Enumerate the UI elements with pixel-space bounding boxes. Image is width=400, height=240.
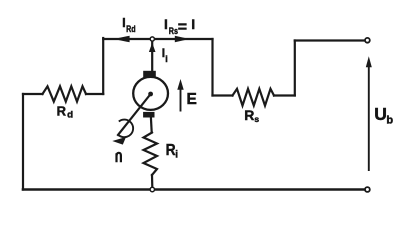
svg-text:R: R bbox=[244, 107, 254, 123]
wire Ri to bottom node bbox=[151, 175, 154, 187]
wire Rs row leads bbox=[213, 94, 295, 96]
svg-text:E: E bbox=[187, 91, 197, 108]
node top (junction on top wire) bbox=[150, 37, 154, 41]
motor M armature circle bbox=[133, 77, 168, 110]
wire to top terminal bbox=[295, 39, 364, 41]
resistor Ri bbox=[144, 133, 158, 176]
wire bottom brush to Ri bbox=[150, 117, 153, 132]
svg-text:Rd: Rd bbox=[126, 24, 136, 34]
svg-text:R: R bbox=[57, 103, 67, 118]
wire top-right segment (node to corner) bbox=[155, 38, 213, 40]
svg-text:b: b bbox=[386, 114, 393, 126]
svg-text:s: s bbox=[254, 114, 259, 124]
motor top brush bbox=[143, 71, 156, 77]
svg-text:I: I bbox=[191, 16, 195, 32]
node bottom (junction on bottom rail) bbox=[150, 187, 154, 191]
wire Rd row leads bbox=[23, 93, 103, 95]
svg-text:i: i bbox=[175, 150, 178, 161]
resistor Rd bbox=[43, 86, 87, 101]
rotation arc n bbox=[119, 120, 133, 138]
wire top-left segment (node to left corner) bbox=[103, 38, 150, 40]
svg-text:=: = bbox=[178, 19, 187, 36]
motor shaft line bbox=[117, 94, 150, 136]
voltage arrow U_b bbox=[368, 66, 370, 171]
resistor Rs bbox=[233, 89, 275, 106]
rotation arrowhead bbox=[112, 137, 126, 145]
wire motor branch: node down to top brush bbox=[151, 42, 153, 72]
wire right riser (Rs row up to top terminal wire) bbox=[294, 41, 296, 96]
svg-text:i: i bbox=[165, 54, 168, 64]
wire left vertical bbox=[22, 94, 24, 190]
EMF arrow E bbox=[180, 89, 182, 112]
svg-text:d: d bbox=[67, 109, 73, 119]
wire bottom rail bbox=[23, 188, 364, 191]
svg-text:U: U bbox=[374, 104, 387, 124]
terminal bottom-right bbox=[365, 187, 370, 192]
wire right drop (top wire to Rs row) bbox=[211, 39, 213, 96]
terminal top-right bbox=[365, 38, 370, 43]
motor center dot bbox=[148, 92, 153, 97]
svg-text:Rs: Rs bbox=[169, 26, 178, 36]
svg-text:I: I bbox=[164, 16, 168, 32]
arrowhead I_i (points up on motor branch) bbox=[149, 43, 156, 52]
motor bottom brush bbox=[143, 112, 154, 118]
arrowhead I_Rd (points left on top wire) bbox=[114, 36, 130, 43]
wire left drop (top wire to Rd row) bbox=[102, 38, 104, 94]
label n bbox=[117, 153, 121, 163]
arrowhead I_Rs (points right on top wire) bbox=[175, 36, 190, 43]
